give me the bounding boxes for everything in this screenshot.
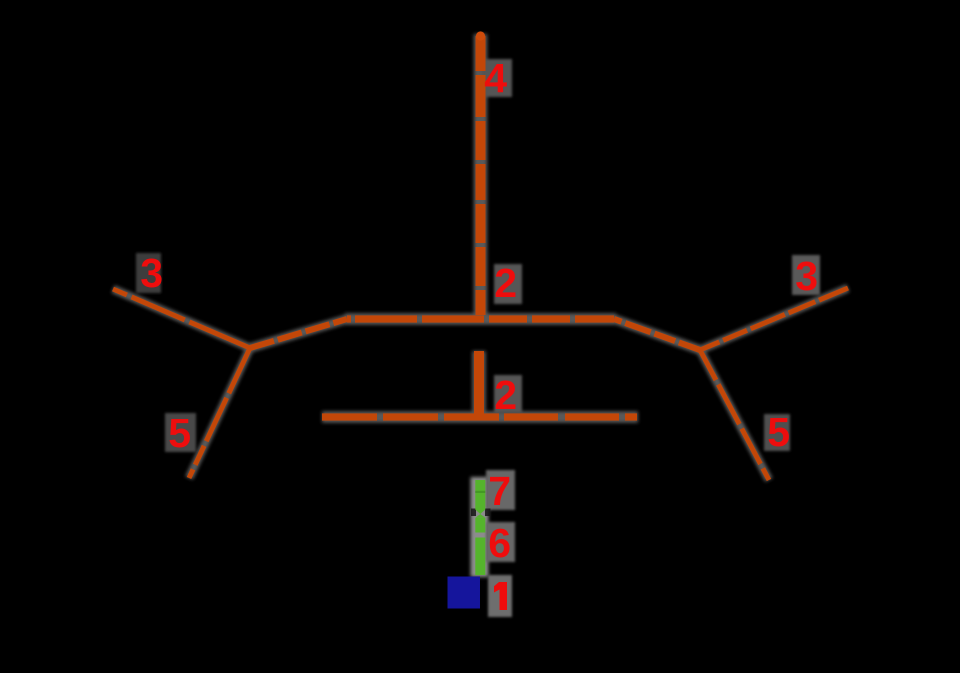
halo: left branch 5: [189, 348, 250, 478]
right dendrite branch 3: [700, 288, 848, 350]
left dendrite branch 3: [113, 289, 250, 348]
halo: upper horizontal section 2: [345, 313, 616, 325]
orange neurites: [113, 31, 848, 480]
svg-text:3: 3: [795, 253, 818, 299]
halo: apical trunk 4: [474, 34, 488, 317]
svg-text:2: 2: [494, 372, 517, 418]
green axon section 6 (lower): [475, 538, 485, 576]
gray blocks behind red digit labels: [136, 59, 820, 617]
green axon section 7 (upper): [475, 480, 485, 510]
svg-text:6: 6: [488, 520, 511, 566]
right dendrite branch 5: [700, 350, 769, 480]
svg-text:5: 5: [168, 410, 191, 456]
svg-text:5: 5: [767, 409, 790, 455]
svg-text:7: 7: [488, 468, 511, 514]
halo: left branch 3: [113, 289, 250, 348]
halo: right connector: [614, 319, 700, 350]
taper of axon 6: [475, 514, 485, 518]
svg-text:4: 4: [484, 55, 507, 101]
left connector wire: [250, 319, 347, 348]
stub of lower dendrite 2: [474, 351, 484, 414]
green axon section 6 (middle): [475, 518, 485, 533]
svg-text:3: 3: [140, 250, 163, 296]
faint segment boundary in axon 7: [475, 491, 485, 493]
svg-text:2: 2: [494, 260, 517, 306]
soma section 1 (blue square): [448, 577, 481, 609]
rounded tip of trunk 4: [476, 31, 485, 40]
halo: right branch 3: [700, 288, 848, 350]
halo: stub of lower dendrite 2: [472, 351, 486, 414]
halo: left connector: [250, 319, 347, 348]
upper horizontal dendrite 2: [347, 315, 614, 322]
label 1: [494, 582, 507, 610]
halo: right branch 5: [700, 350, 769, 480]
gray compression-halo under-strokes for all neurite lines: [113, 34, 848, 480]
halo: lower horizontal section 2: [322, 411, 638, 423]
lower horizontal dendrite 2: [322, 413, 638, 420]
left dendrite branch 5: [189, 348, 250, 478]
dark notches beside axon taper: [471, 509, 476, 517]
right connector wire: [614, 319, 700, 350]
apical trunk section 4 (vertical): [476, 36, 486, 315]
taper of axon 7: [475, 510, 485, 515]
gray band behind green axon: [471, 477, 489, 577]
